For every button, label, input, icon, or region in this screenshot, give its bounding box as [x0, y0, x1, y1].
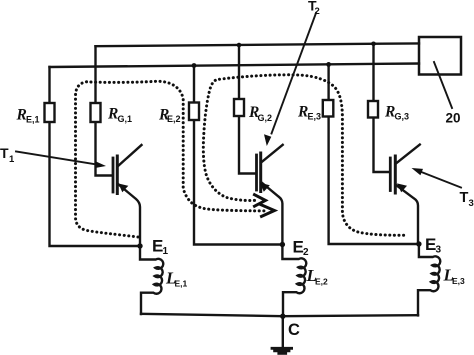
svg-text:1: 1	[9, 154, 15, 165]
svg-text:E,2: E,2	[167, 114, 181, 124]
svg-text:T: T	[460, 190, 469, 206]
svg-text:G,1: G,1	[118, 114, 133, 124]
svg-text:C: C	[288, 321, 300, 339]
svg-text:G,3: G,3	[395, 112, 410, 122]
svg-text:T: T	[0, 145, 9, 161]
svg-text:2: 2	[315, 6, 320, 17]
svg-text:3: 3	[436, 245, 442, 256]
svg-text:E,3: E,3	[452, 276, 465, 286]
svg-text:20: 20	[446, 111, 461, 126]
svg-text:E,1: E,1	[26, 114, 40, 124]
svg-text:G,2: G,2	[258, 113, 273, 123]
svg-text:E,3: E,3	[308, 112, 322, 122]
svg-text:E,2: E,2	[315, 277, 328, 287]
svg-text:3: 3	[469, 198, 474, 209]
svg-text:2: 2	[303, 247, 309, 258]
svg-text:1: 1	[163, 246, 169, 257]
svg-text:E,1: E,1	[175, 279, 188, 289]
